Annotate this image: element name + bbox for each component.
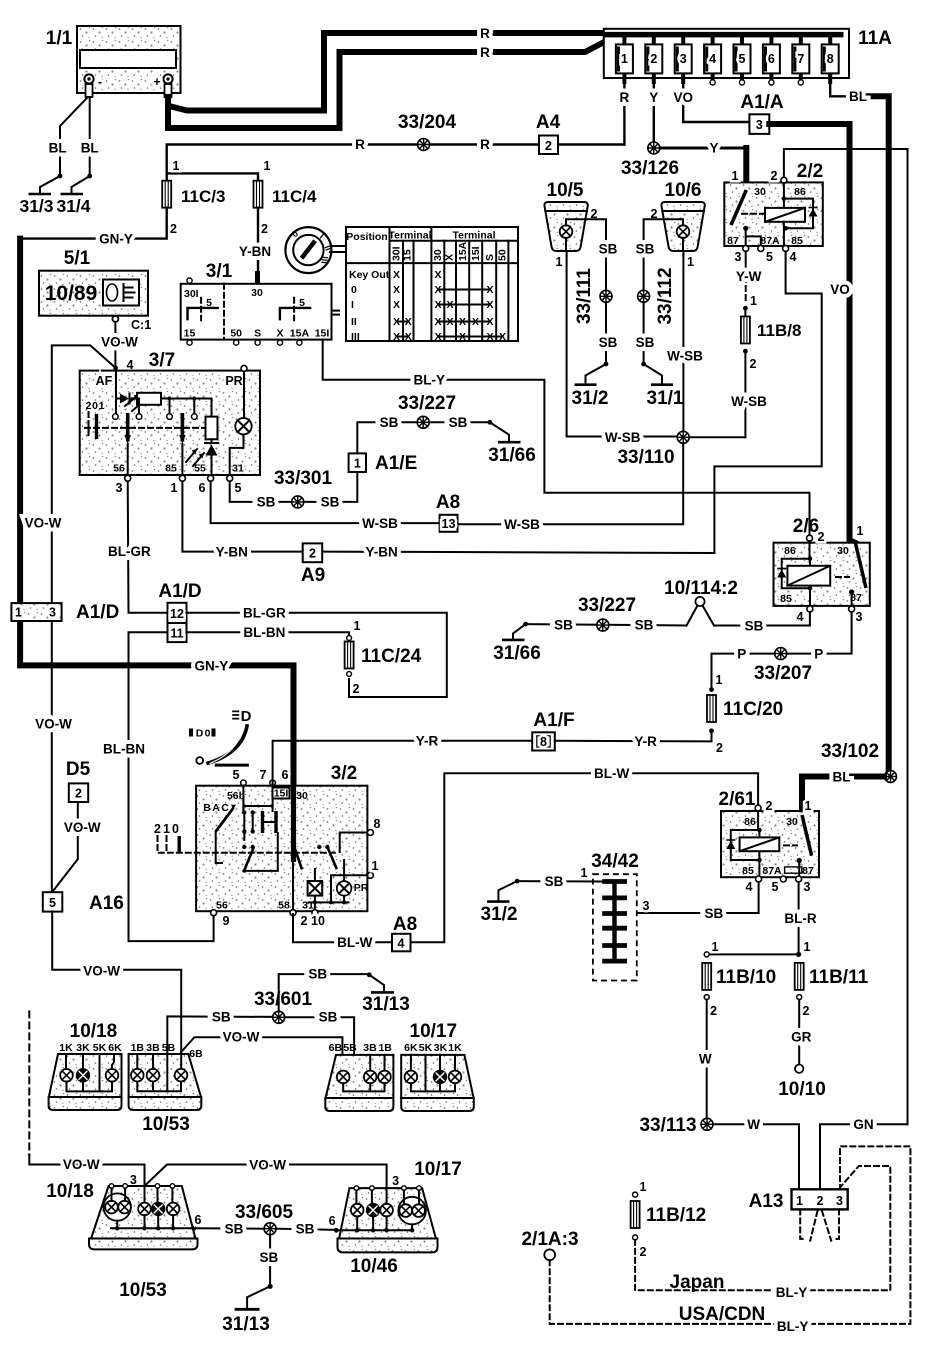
svg-text:W-SB: W-SB	[504, 517, 540, 532]
svg-text:X: X	[486, 331, 493, 343]
svg-text:X: X	[486, 284, 493, 296]
svg-text:BL-BN: BL-BN	[103, 742, 145, 757]
splice 33/110	[617, 431, 689, 468]
svg-text:30: 30	[432, 249, 444, 261]
svg-text:1K: 1K	[59, 1042, 73, 1054]
splice 33/112	[638, 267, 676, 324]
svg-text:30: 30	[296, 790, 308, 802]
dial icon above 3/2	[189, 708, 252, 765]
svg-text:1: 1	[264, 159, 271, 173]
wire VO-W down through A1/D 3 to A16	[51, 621, 53, 892]
connector 10/114:2	[664, 578, 738, 626]
lamp cluster 10/17 upper	[401, 1021, 474, 1111]
svg-text:1: 1	[354, 457, 361, 471]
ignition key symbol	[285, 227, 346, 273]
connector A1/A	[740, 92, 784, 134]
svg-text:15: 15	[184, 328, 196, 340]
wire Y from fuse2 via splice 33/126 to 2/2 pin1	[653, 78, 655, 148]
splice 33/207	[754, 648, 812, 684]
svg-text:BL-W: BL-W	[594, 766, 629, 781]
wire P from 11C/20 up to 33/207 chain to 2/6 pin3	[712, 613, 852, 690]
splice 33/204	[398, 112, 457, 151]
fuse box 11A	[604, 28, 892, 78]
resistor pack 34/42	[581, 851, 650, 981]
svg-text:4: 4	[398, 937, 405, 951]
wire SB lower 10/18 pin6 to 33/605	[194, 1227, 264, 1229]
svg-text:5: 5	[299, 297, 305, 309]
svg-text:A1/D: A1/D	[158, 581, 201, 602]
relay 2/6	[774, 516, 870, 624]
svg-text:A8: A8	[436, 492, 460, 513]
svg-text:4: 4	[797, 610, 804, 624]
svg-text:1: 1	[796, 1194, 803, 1208]
svg-text:3/1: 3/1	[206, 261, 233, 282]
wire fuse1 R down to A4 line	[623, 78, 625, 145]
svg-text:1: 1	[173, 159, 180, 173]
wire Y-R from A1/F to 11C/20 pin2	[555, 731, 712, 742]
connector A9	[301, 543, 325, 586]
svg-text:A16: A16	[89, 893, 124, 914]
wire Y-BN from A9 to 2/2 pin4	[322, 552, 714, 553]
headlamp unit 10/18 10/53 lower	[46, 1173, 201, 1301]
svg-text:31/2: 31/2	[481, 904, 518, 925]
svg-text:8: 8	[374, 817, 381, 831]
svg-text:Terminal: Terminal	[453, 230, 496, 242]
svg-text:D5: D5	[66, 759, 91, 780]
wire BL-GR from A1/D 12 loop to 11C/24 pin2	[187, 613, 447, 697]
svg-text:2/2: 2/2	[797, 161, 823, 182]
fuse 11B/11	[795, 940, 869, 1018]
wire GR from 11B/11 to 10/10	[798, 1000, 800, 1065]
svg-text:2: 2	[710, 1004, 717, 1018]
wire 33/110 down then left to A8 connector 13	[456, 443, 684, 524]
svg-text:2: 2	[545, 139, 552, 153]
relay 2/61	[719, 789, 819, 894]
svg-text:X: X	[393, 269, 400, 281]
svg-text:86: 86	[744, 816, 756, 828]
svg-text:VO-W: VO-W	[101, 335, 138, 350]
ground 31/2 upper	[572, 362, 609, 409]
svg-text:10/6: 10/6	[665, 180, 702, 201]
dashed VO-W feed vertical left edge	[28, 1011, 30, 1155]
svg-text:3K: 3K	[434, 1042, 448, 1054]
svg-text:2/1A:3: 2/1A:3	[521, 1229, 578, 1250]
relay 2/2	[724, 161, 823, 264]
svg-text:BL: BL	[849, 89, 867, 104]
svg-text:1: 1	[99, 400, 105, 412]
svg-text:SB: SB	[554, 618, 573, 633]
wire W-SB 11B/8 to 33/110	[744, 351, 746, 437]
wire VO-W from 5/1 C:1 to 3/7 pin4	[114, 322, 116, 368]
svg-text:15I: 15I	[315, 328, 330, 340]
wire 3/7 pin6 W-SB to A8 connector 13	[211, 481, 440, 523]
svg-text:4: 4	[709, 52, 716, 66]
svg-text:5B: 5B	[343, 1042, 357, 1054]
svg-text:11C/24: 11C/24	[361, 646, 422, 667]
svg-text:3: 3	[680, 52, 687, 66]
svg-text:33/111: 33/111	[574, 268, 595, 324]
fuse 7 in 11A	[792, 35, 809, 85]
svg-text:A1/A: A1/A	[740, 92, 784, 113]
battery 1/1	[46, 26, 181, 97]
svg-text:SB: SB	[599, 335, 618, 350]
svg-text:50: 50	[497, 249, 509, 261]
svg-text:11A: 11A	[858, 28, 892, 49]
svg-text:X: X	[434, 331, 441, 343]
svg-text:X: X	[446, 316, 453, 328]
svg-text:31/3: 31/3	[19, 196, 53, 216]
wire SB from 33/601 to upper 10/46 5B	[285, 1017, 354, 1091]
wire VO-W diagonal lower 10/18 to lower 10/46 pin3	[145, 1165, 387, 1189]
svg-text:6: 6	[199, 481, 206, 495]
relay/unit 5/1 with lamp 10/89	[39, 248, 151, 332]
svg-text:31/2: 31/2	[572, 388, 609, 409]
connector A13	[749, 1189, 848, 1212]
svg-text:33/110: 33/110	[617, 447, 674, 468]
svg-text:1: 1	[640, 1180, 647, 1194]
svg-text:30I: 30I	[184, 288, 199, 300]
svg-text:GN: GN	[853, 1117, 873, 1132]
svg-text:0: 0	[351, 284, 357, 296]
fuse 11C/4	[254, 159, 317, 236]
svg-text:3: 3	[804, 880, 811, 894]
svg-text:X: X	[393, 299, 400, 311]
svg-text:1: 1	[805, 799, 812, 813]
fuse 11B/10	[702, 940, 776, 1018]
svg-text:R: R	[480, 45, 490, 60]
svg-text:VO-W: VO-W	[63, 1157, 100, 1172]
svg-text:SB: SB	[745, 619, 764, 634]
light switch 3/2	[154, 763, 381, 928]
connector A1/D 1 3	[11, 602, 119, 623]
wire BL-BN from A1/D 11 to 11C/24 pin1	[187, 632, 350, 640]
headlamp 10/5	[544, 180, 597, 269]
svg-text:A8: A8	[393, 914, 417, 935]
svg-text:2: 2	[86, 400, 92, 412]
svg-text:III: III	[319, 256, 330, 264]
wire W from 11B/10 to 33/113	[706, 1000, 708, 1125]
svg-text:VO: VO	[830, 282, 850, 297]
svg-text:2: 2	[170, 222, 177, 236]
svg-text:2: 2	[771, 169, 778, 183]
svg-text:85: 85	[780, 593, 792, 605]
svg-text:W-SB: W-SB	[362, 516, 398, 531]
svg-text:X: X	[393, 316, 400, 328]
svg-text:31: 31	[232, 463, 244, 475]
svg-text:GR: GR	[791, 1030, 812, 1045]
headlamp unit 10/46 10/17 lower	[329, 1159, 462, 1277]
svg-text:3: 3	[836, 1194, 843, 1208]
svg-text:SB: SB	[545, 874, 564, 889]
svg-text:10/53: 10/53	[142, 1114, 190, 1135]
svg-text:11B/11: 11B/11	[809, 967, 869, 988]
svg-text:2/61: 2/61	[719, 789, 756, 810]
svg-text:85: 85	[791, 235, 803, 247]
svg-text:2: 2	[154, 822, 161, 836]
svg-text:SB: SB	[257, 495, 276, 510]
wire SB from 33/605 down to ground 31/13	[269, 1235, 271, 1287]
svg-text:BL-GR: BL-GR	[108, 544, 151, 559]
svg-text:X: X	[434, 316, 441, 328]
svg-text:3: 3	[130, 1173, 137, 1187]
ground 31/13 upper	[362, 972, 410, 1015]
svg-text:0: 0	[92, 400, 98, 412]
connector 2/1A:3	[521, 1229, 578, 1260]
svg-text:B: B	[203, 802, 211, 814]
svg-text:GN-Y: GN-Y	[195, 659, 229, 674]
svg-text:5K: 5K	[93, 1042, 107, 1054]
svg-text:1: 1	[15, 606, 22, 620]
svg-text:1B: 1B	[131, 1042, 145, 1054]
svg-text:15A: 15A	[457, 241, 469, 261]
svg-text:X: X	[405, 331, 412, 343]
svg-text:11B/10: 11B/10	[716, 967, 776, 988]
svg-text:50: 50	[230, 328, 242, 340]
ignition switch 3/1	[181, 261, 339, 345]
ground 31/4	[56, 174, 92, 216]
svg-text:3: 3	[392, 1174, 399, 1188]
wire SB left of 10/114:2	[526, 624, 687, 625]
svg-text:1: 1	[750, 294, 757, 308]
svg-text:2: 2	[716, 741, 723, 755]
svg-text:BL-Y: BL-Y	[414, 373, 446, 388]
svg-text:1: 1	[712, 940, 719, 954]
svg-text:34/42: 34/42	[591, 851, 639, 872]
svg-text:30: 30	[837, 545, 849, 557]
svg-text:33/605: 33/605	[235, 1202, 294, 1223]
svg-text:GN-Y: GN-Y	[99, 232, 133, 247]
connector A1/E	[349, 453, 418, 474]
ground 31/13 lower	[222, 1284, 272, 1335]
wire A4 R line to 11C/3 and 11C/4	[167, 145, 625, 182]
svg-text:33/601: 33/601	[254, 989, 313, 1010]
svg-text:R: R	[480, 137, 490, 152]
svg-text:15: 15	[402, 249, 414, 261]
svg-text:X: X	[444, 254, 456, 261]
svg-text:R: R	[480, 26, 490, 41]
svg-text:6B: 6B	[189, 1048, 203, 1060]
svg-text:10/114:2: 10/114:2	[664, 578, 738, 599]
svg-text:86: 86	[794, 186, 806, 198]
svg-text:33/227: 33/227	[398, 393, 456, 414]
svg-text:R: R	[620, 90, 630, 105]
svg-text:VO-W: VO-W	[83, 964, 120, 979]
svg-text:5: 5	[235, 481, 242, 495]
svg-text:A13: A13	[749, 1191, 784, 1212]
svg-text:10/17: 10/17	[414, 1159, 462, 1180]
lamp cluster 10/46 upper	[325, 1042, 393, 1111]
svg-text:6: 6	[329, 1214, 336, 1228]
svg-text:A1/D: A1/D	[76, 602, 119, 623]
svg-text:2: 2	[818, 530, 825, 544]
fuse 11C/3	[162, 159, 225, 236]
svg-text:Japan: Japan	[670, 1272, 725, 1293]
key position table	[346, 227, 518, 343]
svg-text:PR: PR	[225, 374, 242, 388]
svg-text:2: 2	[650, 52, 657, 66]
svg-text:3K: 3K	[76, 1042, 90, 1054]
svg-text:5/1: 5/1	[64, 248, 91, 269]
svg-text:3: 3	[116, 481, 123, 495]
fuse 11B/12	[631, 1180, 707, 1259]
svg-text:33/207: 33/207	[754, 663, 812, 684]
svg-text:10/53: 10/53	[119, 1280, 167, 1301]
svg-text:X: X	[499, 331, 506, 343]
svg-text:SB: SB	[449, 415, 468, 430]
svg-text:SB: SB	[260, 1250, 279, 1265]
lamp cluster 10/18 upper	[49, 1021, 123, 1110]
wire VO-W to lower 10/18 pin3	[29, 1155, 144, 1186]
svg-text:X: X	[486, 316, 493, 328]
splice 33/227 lower	[578, 595, 636, 631]
fuse 11C/24	[345, 619, 422, 696]
svg-text:X: X	[459, 331, 466, 343]
svg-text:58: 58	[278, 900, 290, 912]
svg-text:87: 87	[727, 235, 739, 247]
svg-text:30: 30	[754, 186, 766, 198]
svg-text:5B: 5B	[162, 1042, 176, 1054]
svg-text:3: 3	[756, 118, 763, 132]
svg-text:1: 1	[556, 255, 563, 269]
svg-text:0: 0	[205, 728, 211, 740]
svg-text:30: 30	[251, 287, 263, 299]
wire 10/5 pin1 down to 33/110 chain	[567, 255, 684, 437]
svg-text:11C/20: 11C/20	[723, 699, 783, 720]
wire 2/2 pin4 85 to Y-BN junction	[714, 252, 821, 554]
svg-text:+: +	[153, 75, 160, 89]
wire Y-R from 3/2 pin7 to A1/F	[273, 741, 533, 786]
svg-text:31: 31	[302, 900, 314, 912]
svg-text:30: 30	[786, 816, 798, 828]
svg-text:11C/4: 11C/4	[272, 187, 317, 206]
svg-text:11C/3: 11C/3	[181, 187, 225, 206]
fuse 6 in 11A	[763, 35, 780, 85]
svg-text:BL: BL	[833, 770, 851, 785]
svg-text:2: 2	[75, 787, 82, 801]
wire junction to 11B/10 pin1	[707, 953, 799, 955]
svg-text:4: 4	[790, 250, 797, 264]
svg-text:BL-GR: BL-GR	[243, 606, 286, 621]
svg-text:SB: SB	[296, 1222, 315, 1237]
svg-text:87: 87	[802, 865, 814, 877]
svg-text:31/4: 31/4	[56, 196, 90, 216]
svg-text:87A: 87A	[760, 235, 780, 247]
svg-text:SB: SB	[635, 618, 654, 633]
svg-text:15I: 15I	[470, 246, 482, 261]
connector A4	[536, 112, 561, 154]
svg-text:S: S	[484, 254, 496, 261]
svg-text:2: 2	[803, 1004, 810, 1018]
wire 3/7 pin1 Y-BN to A9	[182, 481, 302, 551]
svg-text:SB: SB	[705, 906, 724, 921]
svg-text:33/204: 33/204	[398, 112, 457, 133]
svg-text:1K: 1K	[448, 1042, 462, 1054]
wire Y-BN from 11C/4 to 3/1 pin30	[257, 208, 259, 272]
svg-text:5: 5	[49, 896, 56, 910]
svg-text:W-SB: W-SB	[605, 430, 641, 445]
svg-text:33/126: 33/126	[621, 158, 679, 179]
wire 33/110 right up to 11B/8 pin2	[689, 436, 745, 438]
svg-text:BL-BN: BL-BN	[243, 625, 285, 640]
wire VO-W diagonal from 10/53 6B to upper 10/46 6B	[181, 1037, 342, 1069]
svg-text:Key Out: Key Out	[349, 269, 390, 281]
wire SB 2/6 pin4 via 10/114:2 and 33/227 to ground 31/66	[714, 612, 810, 626]
svg-text:10/10: 10/10	[778, 1079, 826, 1100]
svg-text:31/13: 31/13	[222, 1314, 270, 1335]
svg-text:Y: Y	[709, 141, 718, 156]
svg-text:10/18: 10/18	[46, 1181, 94, 1202]
svg-text:X: X	[393, 331, 400, 343]
wire GN-Y from 11C/3 to A1/D	[20, 208, 167, 239]
svg-text:33/102: 33/102	[821, 741, 879, 762]
svg-text:PR: PR	[354, 882, 369, 894]
svg-text:1: 1	[732, 169, 739, 183]
fuse 8 in 11A	[822, 35, 839, 84]
ground 31/66 upper	[488, 420, 536, 466]
wire SB 2/61 pin4 to 34/42 pin3	[627, 882, 759, 913]
svg-text:4: 4	[746, 880, 753, 894]
svg-text:VO-W: VO-W	[64, 820, 101, 835]
fuse 5 in 11A	[734, 35, 751, 85]
svg-text:VO-W: VO-W	[249, 1158, 286, 1173]
svg-text:X: X	[434, 299, 441, 311]
wire battery positive R feed upper	[165, 97, 171, 128]
svg-text:1: 1	[804, 940, 811, 954]
svg-text:II: II	[351, 316, 357, 328]
wire VO-W branch to left vertical	[52, 345, 116, 603]
wire battery positive R feed lower	[168, 40, 608, 128]
svg-text:6K: 6K	[404, 1042, 418, 1054]
svg-text:5: 5	[206, 297, 212, 309]
svg-text:C:1: C:1	[131, 318, 151, 332]
svg-text:S: S	[254, 328, 261, 340]
svg-text:1/1: 1/1	[46, 28, 73, 49]
svg-text:1: 1	[171, 481, 178, 495]
wire BL-R from 2/61 pin3 to fuse junction	[798, 882, 800, 954]
svg-text:W-SB: W-SB	[667, 349, 703, 364]
svg-text:2: 2	[309, 547, 316, 561]
svg-text:6B: 6B	[329, 1042, 343, 1054]
dashed legs below A13	[800, 1209, 806, 1239]
svg-text:A1/E: A1/E	[375, 453, 417, 474]
svg-text:Position: Position	[346, 231, 387, 243]
svg-text:R: R	[355, 137, 365, 152]
ground 31/66 lower	[493, 622, 541, 664]
svg-text:VO-W: VO-W	[223, 1030, 260, 1045]
svg-text:2: 2	[261, 222, 268, 236]
lamp cluster 10/53 upper	[129, 1042, 204, 1135]
svg-text:3: 3	[643, 899, 650, 913]
connector A8 (13)	[436, 492, 460, 532]
svg-text:W: W	[747, 1117, 760, 1132]
svg-text:A4: A4	[536, 112, 561, 133]
svg-text:Y-R: Y-R	[634, 734, 657, 749]
svg-text:BL-W: BL-W	[337, 935, 372, 950]
fuse 11C/20	[707, 673, 783, 755]
svg-text:X: X	[434, 269, 441, 281]
svg-text:2: 2	[750, 357, 757, 371]
svg-text:X: X	[434, 284, 441, 296]
svg-text:3B: 3B	[363, 1042, 377, 1054]
svg-text:6: 6	[768, 52, 775, 66]
dashed wire USA/CDN BL-Y from 2/1A:3 to A13 pin3	[550, 1146, 911, 1324]
svg-text:SB: SB	[308, 967, 327, 982]
svg-text:VO-W: VO-W	[35, 717, 72, 732]
wire SB from 33/601 up to ground 31/13	[279, 974, 370, 1011]
svg-text:A: A	[212, 802, 220, 814]
splice 33/227 upper	[398, 393, 456, 428]
splice 33/601	[254, 989, 313, 1023]
